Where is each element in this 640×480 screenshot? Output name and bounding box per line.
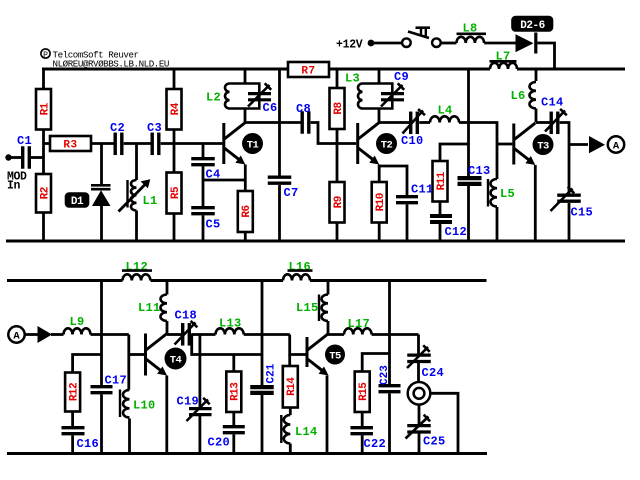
svg-text:C16: C16 <box>77 437 100 451</box>
svg-text:L17: L17 <box>348 317 371 331</box>
svg-text:R4: R4 <box>170 102 182 115</box>
svg-text:C6: C6 <box>263 101 278 115</box>
svg-text:C11: C11 <box>411 183 434 197</box>
svg-text:C14: C14 <box>541 96 564 110</box>
svg-text:T2: T2 <box>381 140 393 152</box>
svg-text:C18: C18 <box>175 309 198 323</box>
svg-text:L3: L3 <box>345 72 360 86</box>
svg-text:C22: C22 <box>364 437 387 451</box>
svg-text:C12: C12 <box>445 225 468 239</box>
svg-text:R12: R12 <box>68 383 80 401</box>
svg-text:D1: D1 <box>71 196 84 208</box>
svg-text:C24: C24 <box>422 366 445 380</box>
svg-text:C10: C10 <box>401 134 424 148</box>
svg-text:R14: R14 <box>286 377 298 396</box>
svg-text:C9: C9 <box>394 70 409 84</box>
svg-text:R5: R5 <box>170 186 182 199</box>
svg-text:T3: T3 <box>537 141 549 153</box>
svg-text:A: A <box>13 331 20 343</box>
svg-text:L15: L15 <box>296 301 319 315</box>
svg-text:C23: C23 <box>379 365 391 385</box>
svg-text:C1: C1 <box>17 134 32 148</box>
svg-text:L13: L13 <box>219 317 242 331</box>
svg-text:T1: T1 <box>247 140 259 152</box>
svg-text:R13: R13 <box>230 382 242 401</box>
svg-text:+12V: +12V <box>336 39 363 52</box>
svg-text:C3: C3 <box>147 121 162 135</box>
svg-text:C8: C8 <box>296 102 311 116</box>
svg-text:C7: C7 <box>284 186 299 200</box>
svg-text:C13: C13 <box>468 164 491 178</box>
svg-text:R9: R9 <box>333 196 345 208</box>
svg-text:C20: C20 <box>208 436 231 450</box>
svg-text:L4: L4 <box>438 104 453 118</box>
svg-text:R11: R11 <box>436 171 448 190</box>
svg-text:C17: C17 <box>105 374 128 388</box>
svg-text:A: A <box>613 141 620 153</box>
svg-text:C5: C5 <box>206 218 221 232</box>
svg-text:R3: R3 <box>63 140 77 152</box>
svg-text:L14: L14 <box>295 425 318 439</box>
svg-text:T4: T4 <box>170 355 182 367</box>
svg-text:P: P <box>43 51 48 60</box>
svg-text:L9: L9 <box>70 315 85 329</box>
svg-text:R2: R2 <box>39 187 51 199</box>
svg-text:L11: L11 <box>138 301 161 315</box>
svg-text:L6: L6 <box>511 89 526 103</box>
svg-text:R15: R15 <box>358 382 370 401</box>
svg-text:C4: C4 <box>206 168 221 182</box>
svg-text:L10: L10 <box>133 399 156 413</box>
svg-text:In: In <box>7 180 21 193</box>
svg-text:R10: R10 <box>375 193 387 211</box>
svg-text:NLØREU@RVØBBS.LB.NLD.EU: NLØREU@RVØBBS.LB.NLD.EU <box>53 59 169 70</box>
svg-text:C19: C19 <box>177 395 200 409</box>
svg-text:R8: R8 <box>333 102 345 115</box>
svg-text:C25: C25 <box>423 435 446 449</box>
svg-text:R7: R7 <box>301 66 315 78</box>
svg-text:T5: T5 <box>329 351 341 363</box>
svg-text:C21: C21 <box>266 363 278 383</box>
svg-text:D2-6: D2-6 <box>520 20 544 32</box>
svg-text:R1: R1 <box>39 102 51 115</box>
svg-text:L2: L2 <box>206 91 221 105</box>
svg-text:C2: C2 <box>110 121 125 135</box>
svg-text:L5: L5 <box>500 187 515 201</box>
svg-text:R6: R6 <box>241 205 253 217</box>
svg-text:L1: L1 <box>143 194 158 208</box>
svg-text:C15: C15 <box>571 206 594 220</box>
